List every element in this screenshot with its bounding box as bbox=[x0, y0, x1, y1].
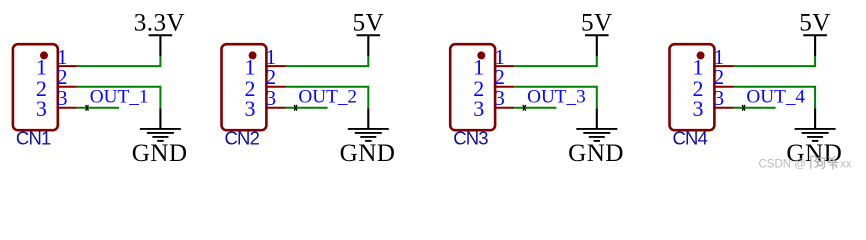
svg-text:5V: 5V bbox=[353, 9, 385, 36]
svg-text:3: 3 bbox=[245, 96, 256, 121]
svg-text:5V: 5V bbox=[581, 9, 613, 36]
svg-text:CN3: CN3 bbox=[453, 128, 488, 149]
svg-text:OUT_1: OUT_1 bbox=[90, 87, 149, 108]
svg-text:3: 3 bbox=[494, 86, 505, 110]
svg-text:OUT_4: OUT_4 bbox=[746, 87, 805, 108]
svg-text:GND: GND bbox=[568, 140, 624, 167]
svg-text:CSDN @: CSDN @ bbox=[759, 159, 806, 171]
svg-text:OUT_2: OUT_2 bbox=[298, 87, 357, 108]
svg-text:xx: xx bbox=[840, 159, 852, 171]
svg-text:3: 3 bbox=[473, 96, 484, 121]
svg-text:CN2: CN2 bbox=[225, 128, 260, 149]
svg-text:GND: GND bbox=[132, 140, 188, 167]
svg-text:OUT_3: OUT_3 bbox=[527, 87, 586, 108]
svg-text:5V: 5V bbox=[799, 9, 831, 36]
svg-text:CN4: CN4 bbox=[673, 128, 708, 149]
svg-text:GND: GND bbox=[340, 140, 396, 167]
svg-text:3: 3 bbox=[266, 86, 277, 110]
svg-text:3: 3 bbox=[714, 86, 725, 110]
svg-text:3: 3 bbox=[36, 96, 47, 121]
svg-text:CN1: CN1 bbox=[16, 128, 51, 149]
svg-text:3: 3 bbox=[57, 86, 68, 110]
svg-text:3: 3 bbox=[693, 96, 704, 121]
svg-text:3.3V: 3.3V bbox=[134, 9, 185, 36]
